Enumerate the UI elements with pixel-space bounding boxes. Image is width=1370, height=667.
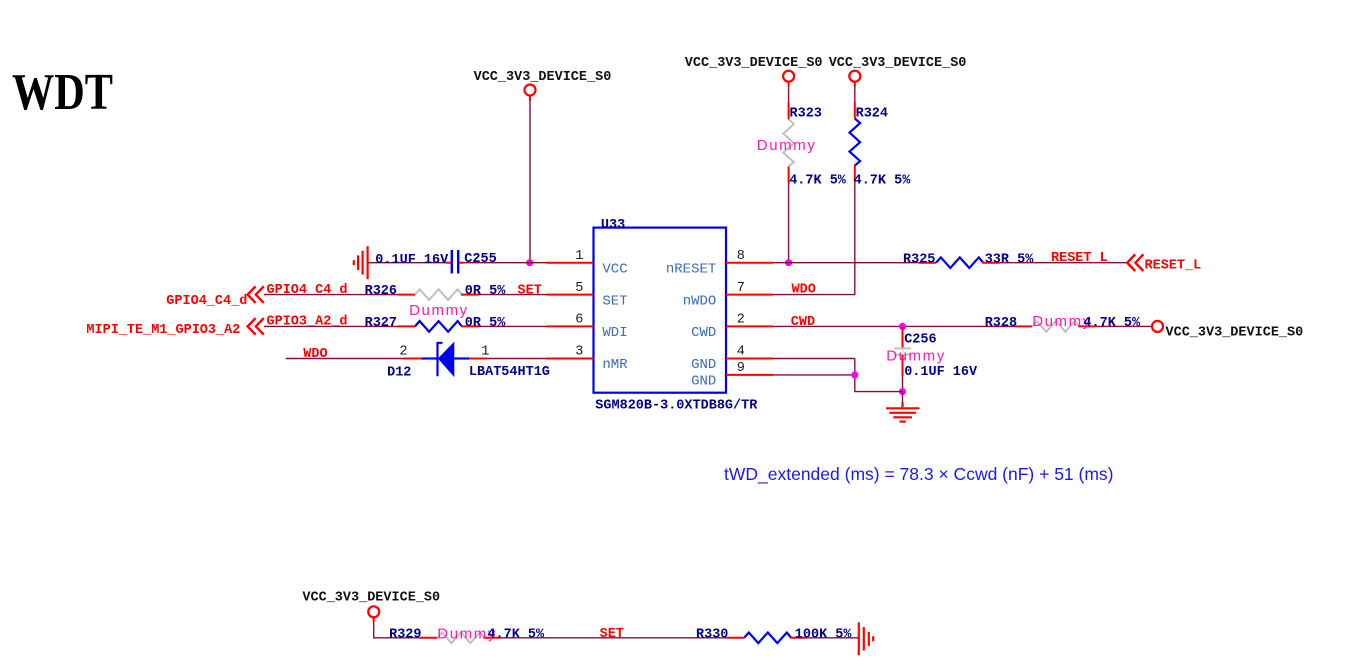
svg-text:VCC_3V3_DEVICE_S0: VCC_3V3_DEVICE_S0 [302,590,440,605]
wire R327 to pin6 [479,325,547,327]
resistor R323 (Dummy 4.7K) [757,103,847,189]
svg-text:SET: SET [518,283,542,298]
svg-text:VCC_3V3_DEVICE_S0: VCC_3V3_DEVICE_S0 [829,56,967,71]
pin 4 GND [691,345,773,374]
pin 1 VCC [547,249,628,278]
resistor R328 (Dummy 4.7K) [985,313,1141,332]
junction R323/pin8 [785,259,792,266]
resistor R330 (100K) [696,627,852,643]
port RESET_L [1127,254,1201,273]
svg-text:nRESET: nRESET [666,261,716,277]
svg-text:SGM820B-3.0XTDB8G/TR: SGM820B-3.0XTDB8G/TR [595,398,758,413]
wire C255 to junction to pin1 [465,262,547,264]
svg-text:WDI: WDI [602,325,627,341]
ground (below C256) [886,403,919,422]
wire R324 down to nWDO net [773,182,855,295]
svg-text:SET: SET [600,627,624,642]
wire R323 to pin8 net [788,184,790,263]
wire C256 to bottom junction [902,376,904,392]
svg-text:GPIO4_C4_d: GPIO4_C4_d [166,294,247,309]
svg-text:U33: U33 [601,218,625,233]
svg-text:2: 2 [399,345,407,360]
wire R328 to power [1096,325,1152,327]
svg-text:R323: R323 [790,107,822,122]
svg-text:C255: C255 [464,252,496,267]
svg-text:1: 1 [481,345,489,360]
svg-text:RESET_L: RESET_L [1051,251,1108,266]
power symbol VCC_3V3_DEVICE_S0 (above C255 net) [474,70,612,100]
svg-text:7: 7 [737,281,745,296]
power symbol VCC_3V3_DEVICE_S0 (bottom SET net) [302,590,440,622]
svg-text:Dummy: Dummy [886,347,946,364]
svg-text:4.7K 5%: 4.7K 5% [487,627,545,642]
ground (left of C255, sideways) [354,246,368,279]
power symbol VCC_3V3_DEVICE_S0 (above R323) [685,56,823,87]
junction pin9/pin4 route [851,371,858,378]
junction C256/GND route [899,388,906,395]
svg-text:nWDO: nWDO [683,293,717,309]
svg-text:D12: D12 [387,366,411,381]
pin 9 GND [691,361,773,389]
wire pin8 to R325 [773,262,919,264]
junction CWD/C256 [899,323,906,330]
svg-text:R330: R330 [696,627,728,642]
svg-text:R328: R328 [985,316,1017,331]
junction at VCC/C255/pin1 [526,259,533,266]
svg-text:VCC: VCC [602,261,627,277]
power symbol VCC_3V3_DEVICE_S0 (above R324) [829,56,967,87]
svg-text:5: 5 [575,281,583,296]
port GPIO4_C4_d [166,286,263,309]
svg-text:3: 3 [575,345,583,360]
svg-text:R329: R329 [389,627,421,642]
pin 5 SET [547,281,628,310]
svg-text:1: 1 [575,249,583,264]
svg-text:GND: GND [691,357,716,373]
pin 2 CWD [691,313,773,342]
wire junction to ground [902,392,904,403]
resistor R326 (Dummy 0R) [365,284,507,319]
power symbol VCC_3V3_DEVICE_S0 (right of R328) [1152,321,1303,341]
wire port to R326 [264,294,398,296]
wire R325 to RESET_L port [1000,262,1127,264]
svg-text:4: 4 [737,345,745,360]
svg-text:R326: R326 [365,284,397,299]
wire pin2 CWD to junction [773,325,1015,327]
pin 6 WDI [547,313,628,342]
resistor R327 (0R) [365,316,507,332]
svg-text:0R 5%: 0R 5% [465,316,506,331]
svg-text:SET: SET [602,293,627,309]
svg-text:R324: R324 [856,107,888,122]
wire pin4 to corner [773,358,855,360]
svg-text:MIPI_TE_M1_GPIO3_A2: MIPI_TE_M1_GPIO3_A2 [86,323,240,338]
svg-text:RESET_L: RESET_L [1145,259,1202,274]
svg-text:100K 5%: 100K 5% [795,627,853,642]
svg-text:WDO: WDO [792,283,816,298]
wire R329 to R330, node SET [501,637,727,639]
svg-text:9: 9 [737,361,745,376]
svg-text:2: 2 [737,313,745,328]
resistor R329 (Dummy 4.7K) [389,626,545,644]
svg-text:tWD_extended (ms) = 78.3 × Ccw: tWD_extended (ms) = 78.3 × Ccwd (nF) + 5… [724,464,1114,485]
ground (right of R330, sideways) [859,622,873,655]
svg-text:4.7K 5%: 4.7K 5% [1083,316,1141,331]
wire pin9 to corner [773,374,855,376]
port MIPI_TE_M1_GPIO3_A2 [86,318,263,338]
wire power down and right to R329 [374,622,420,638]
svg-text:33R 5%: 33R 5% [985,252,1035,267]
svg-text:WDT: WDT [12,64,113,121]
wire R326 to pin5, node SET [479,294,547,296]
diode D12 LBAT54HT1G [387,343,550,381]
resistor R324 (4.7K) [850,102,912,189]
wire port to R327 [264,325,398,327]
pin 3 nMR [547,345,629,374]
svg-text:VCC_3V3_DEVICE_S0: VCC_3V3_DEVICE_S0 [1166,326,1304,341]
svg-text:VCC_3V3_DEVICE_S0: VCC_3V3_DEVICE_S0 [685,56,823,71]
op-amp U33 body [594,218,759,413]
svg-text:GND: GND [691,373,716,389]
wire R330 to ground [808,637,858,639]
wire VCC vertical to pin1 net [529,100,531,263]
svg-text:0.1UF 16V: 0.1UF 16V [375,253,449,268]
svg-text:6: 6 [575,313,583,328]
svg-text:4.7K 5%: 4.7K 5% [789,174,847,189]
svg-text:4.7K 5%: 4.7K 5% [854,174,912,189]
svg-text:LBAT54HT1G: LBAT54HT1G [469,365,550,380]
pin 8 nRESET [666,249,773,278]
svg-text:GPIO4_C4_d: GPIO4_C4_d [267,283,348,298]
wire power to R324 [854,86,856,102]
svg-text:8: 8 [737,249,745,264]
svg-text:Dummy: Dummy [757,137,817,154]
svg-text:GPIO3_A2_d: GPIO3_A2_d [267,315,348,330]
svg-text:C256: C256 [904,333,936,348]
capacitor C255 [368,250,497,274]
svg-text:CWD: CWD [791,315,815,330]
svg-text:CWD: CWD [691,325,716,341]
svg-text:Dummy: Dummy [409,302,469,319]
capacitor C256 (Dummy) [886,326,978,380]
svg-text:nMR: nMR [602,357,628,373]
pin 7 nWDO [683,281,773,310]
svg-text:R325: R325 [903,252,935,267]
svg-text:0.1UF 16V: 0.1UF 16V [904,365,978,380]
wire power to R323 [788,86,790,103]
svg-text:0R 5%: 0R 5% [465,284,506,299]
wire GND route vertical + bottom [855,359,903,392]
svg-text:VCC_3V3_DEVICE_S0: VCC_3V3_DEVICE_S0 [474,70,612,85]
resistor R325 (33R) [903,252,1034,268]
svg-text:WDO: WDO [303,347,327,362]
svg-text:R327: R327 [365,316,397,331]
wire WDO to diode [286,358,404,360]
wire diode to pin3 [487,358,547,360]
